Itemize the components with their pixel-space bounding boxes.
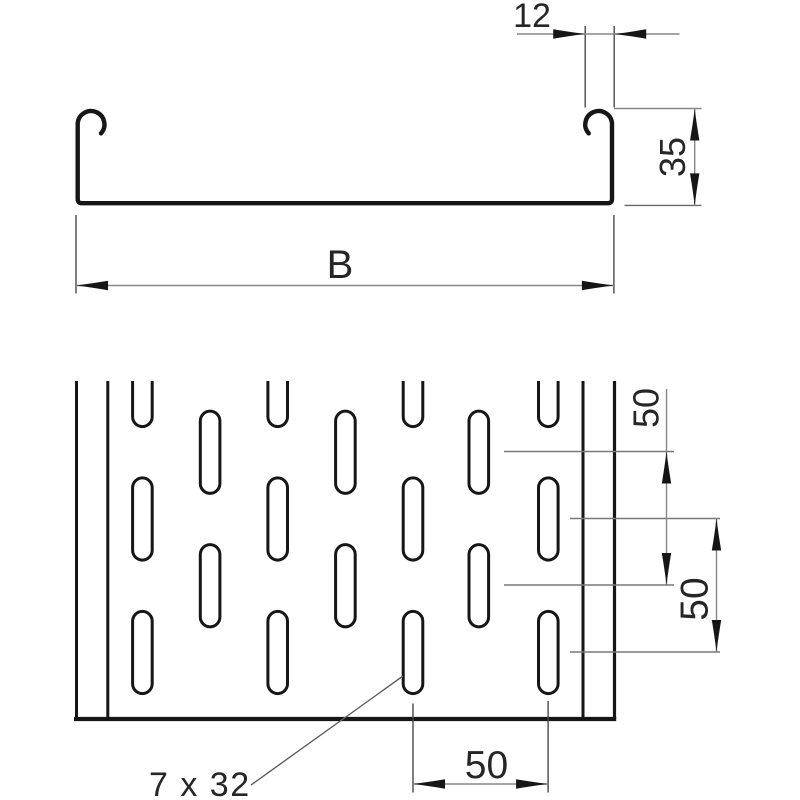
extension line slot row centers ext1 — [504, 451, 674, 453]
slot col2 row2 — [200, 545, 220, 627]
plate bottom edge — [74, 717, 616, 721]
dimension 12 arrow left — [553, 29, 585, 38]
dimension 35 extension line bottom — [625, 204, 702, 206]
slot col5 row3 — [403, 611, 423, 693]
plate right outer edge — [613, 379, 616, 719]
perforated tray plan view — [74, 344, 616, 719]
dimension 12 line — [517, 33, 680, 35]
extension line ext4 — [570, 651, 720, 653]
slot col4 row2 — [336, 545, 356, 627]
dimension 12 extension line left — [584, 26, 586, 108]
extension line ext2 — [570, 518, 720, 520]
slot col7 row1 (cut) — [539, 344, 559, 426]
slot col3 row3 — [268, 611, 288, 693]
dimension 50 vertical A line — [666, 389, 668, 585]
slot col5 row1 (cut) — [403, 344, 423, 426]
dimension B extension line right — [613, 215, 615, 294]
dimension B line — [76, 285, 614, 287]
dimension 35 extension line top — [614, 108, 702, 110]
dimension B arrow right — [582, 281, 614, 290]
bottom dimension 50 arrow right — [516, 779, 548, 788]
dimension 50 vertical B line — [716, 519, 718, 653]
dimension B arrow left — [76, 281, 108, 290]
extension line ext3 — [504, 584, 674, 586]
dimension 50 vertical B arrow down — [712, 620, 721, 652]
slot col7 row3 — [539, 611, 559, 693]
svg-text:50: 50 — [674, 577, 717, 620]
dimension 12 arrow right — [614, 29, 646, 38]
bottom dimension 50 line — [413, 783, 548, 785]
svg-text:50: 50 — [626, 388, 667, 428]
dimension 50 vertical B arrow up — [712, 519, 721, 551]
plate left outer edge — [75, 379, 78, 719]
dimension B extension line left — [75, 215, 77, 294]
bottom dimension 50 extension line left — [412, 704, 414, 793]
svg-text:7 x 32: 7 x 32 — [149, 766, 251, 800]
slot col7 row2 — [539, 478, 559, 560]
slot col1 row2 — [133, 478, 153, 560]
dimension 50 vertical A arrow down — [662, 553, 671, 585]
slot col5 row2 — [403, 478, 423, 560]
dimension 35 arrow bottom — [690, 173, 699, 205]
slot col3 row1 (cut) — [268, 344, 288, 426]
slot col6 row1 — [469, 411, 489, 493]
bottom dimension 50 arrow left — [413, 779, 445, 788]
plate left fold line — [106, 379, 109, 719]
plate right fold line — [582, 379, 585, 719]
leader line for slot size — [251, 676, 403, 785]
svg-text:B: B — [327, 243, 354, 287]
profile outline (C-channel cross-section) — [78, 111, 612, 203]
dimension 35 line — [694, 109, 696, 206]
svg-text:12: 12 — [513, 0, 551, 35]
dimension 50 vertical A arrow up — [662, 452, 671, 484]
slot col2 row1 — [200, 411, 220, 493]
slot col1 row3 — [133, 611, 153, 693]
slot col6 row2 — [469, 545, 489, 627]
svg-text:35: 35 — [652, 137, 693, 177]
svg-text:50: 50 — [465, 744, 508, 787]
dimension 35 arrow top — [690, 109, 699, 141]
bottom dimension 50 extension line right — [547, 701, 549, 793]
dimension 12 extension line right — [613, 26, 615, 108]
slot col3 row2 — [268, 478, 288, 560]
slot col1 row1 (cut) — [133, 344, 153, 426]
slot col4 row1 — [336, 411, 356, 493]
